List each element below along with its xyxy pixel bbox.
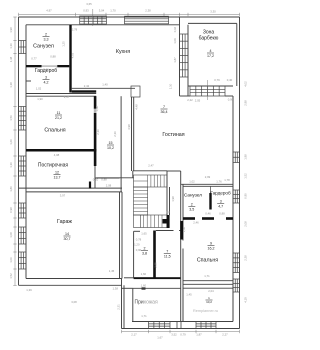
wall barbecue left inner	[187, 25, 189, 96]
svg-text:3,30: 3,30	[210, 10, 216, 14]
wall cluster left thick segment	[180, 221, 183, 240]
svg-text:2,46: 2,46	[43, 68, 49, 72]
svg-text:10,2: 10,2	[107, 146, 114, 150]
svg-text:2,47: 2,47	[64, 95, 70, 99]
svg-text:Постирочная: Постирочная	[38, 163, 69, 169]
svg-text:10,2: 10,2	[206, 300, 212, 304]
svg-text:Прихожая: Прихожая	[135, 300, 158, 306]
door post hall partition	[142, 287, 146, 289]
svg-text:2: 2	[45, 33, 47, 37]
svg-text:0,88: 0,88	[101, 178, 107, 182]
wall outer left	[18, 17, 20, 285]
wall barbecue inner top	[188, 22, 237, 24]
svg-text:4,7: 4,7	[218, 204, 223, 208]
wall room-a left	[133, 231, 135, 277]
wall lower-left vertical outer	[121, 279, 123, 329]
svg-text:3,3: 3,3	[44, 37, 49, 41]
svg-text:1,38: 1,38	[9, 82, 13, 88]
svg-text:1,02: 1,02	[189, 180, 195, 184]
svg-text:1,08: 1,08	[9, 232, 13, 238]
wall corridor left thick lower	[94, 113, 97, 166]
svg-text:1,38: 1,38	[9, 56, 13, 62]
stair right wall thick	[167, 215, 170, 228]
svg-text:0,88: 0,88	[50, 55, 56, 59]
svg-text:2,04: 2,04	[208, 289, 214, 293]
svg-text:2,27: 2,27	[222, 333, 228, 337]
svg-text:2,47: 2,47	[148, 164, 154, 168]
door posts bottom wall	[176, 322, 178, 329]
wall room-a/room-b thick divider	[153, 231, 156, 278]
svg-text:0,77: 0,77	[31, 57, 37, 61]
wall corridor bottom stub	[96, 177, 133, 179]
svg-text:2,31: 2,31	[117, 304, 121, 310]
stair left flight	[134, 187, 148, 215]
wall kitchen-living thick	[72, 90, 97, 92]
door leaf bedroom	[94, 109, 97, 113]
window right living	[233, 152, 240, 163]
svg-text:1,52: 1,52	[9, 273, 13, 279]
stair right wall	[166, 171, 168, 228]
wall kitchen-living thin	[72, 87, 135, 89]
svg-text:2,98: 2,98	[244, 100, 248, 106]
svg-text:4,2: 4,2	[44, 80, 49, 84]
wall room-b top	[156, 230, 174, 232]
svg-text:0,93: 0,93	[83, 9, 89, 13]
wall bottom-right room top/hall divider	[183, 287, 233, 289]
wall garage bottom inner	[26, 278, 122, 280]
svg-text:1,87: 1,87	[173, 57, 177, 63]
window left garage 3	[19, 252, 27, 269]
wall wardrobe top thick with door	[26, 65, 42, 67]
window left laundry	[19, 156, 27, 176]
svg-text:2,36: 2,36	[113, 131, 117, 137]
svg-text:1,98: 1,98	[9, 27, 13, 33]
svg-text:1,30: 1,30	[9, 162, 13, 168]
svg-text:9: 9	[210, 242, 212, 246]
svg-text:1,70: 1,70	[110, 9, 116, 13]
wall barbecue bottom	[188, 85, 233, 87]
wall corridor right of garage	[95, 177, 120, 179]
svg-text:1,25: 1,25	[62, 41, 66, 47]
wall outer top	[19, 16, 240, 18]
svg-text:3,08: 3,08	[71, 300, 77, 304]
door leaf wardrobe	[42, 65, 58, 66]
svg-text:1,67: 1,67	[157, 336, 163, 340]
svg-text:4,48: 4,48	[135, 104, 139, 110]
stair boundary top	[133, 170, 167, 172]
dim text bottom row	[122, 331, 240, 333]
wall bedroom2 bottom	[183, 280, 233, 282]
svg-text:Гараж: Гараж	[57, 219, 72, 225]
svg-text:0,88: 0,88	[219, 212, 225, 216]
svg-text:Санузел: Санузел	[184, 193, 202, 198]
svg-text:1,71: 1,71	[204, 274, 210, 278]
svg-text:7: 7	[166, 250, 168, 254]
svg-text:2: 2	[144, 247, 146, 251]
svg-text:1,45: 1,45	[186, 293, 192, 297]
svg-text:4: 4	[210, 49, 212, 53]
wall lower-left vertical inner	[123, 285, 125, 328]
svg-text:0,98: 0,98	[9, 207, 13, 213]
svg-text:1,98: 1,98	[244, 154, 248, 160]
svg-text:12: 12	[55, 171, 59, 175]
wall cluster left	[180, 171, 182, 322]
svg-text:3,8: 3,8	[142, 251, 147, 255]
door post garage	[89, 182, 91, 189]
svg-text:3,04: 3,04	[99, 9, 105, 13]
svg-text:4,08: 4,08	[54, 153, 60, 157]
svg-text:1,71: 1,71	[141, 314, 147, 318]
wall inner right	[232, 96, 234, 322]
wall inner left	[25, 25, 27, 279]
svg-text:2,36: 2,36	[96, 129, 100, 135]
svg-text:3: 3	[220, 200, 222, 204]
svg-text:11,5: 11,5	[164, 254, 171, 258]
svg-text:14: 14	[65, 232, 69, 236]
svg-text:0,79: 0,79	[214, 78, 220, 82]
wall wardrobe inner line	[26, 80, 31, 82]
svg-text:Гостиная: Гостиная	[162, 132, 184, 138]
wall cluster mid thick (bedroom2 top)	[183, 217, 195, 220]
hall upper partition line	[133, 287, 181, 289]
dim tick barbecue window	[206, 80, 208, 100]
wall laundry right thin lower	[94, 166, 96, 188]
svg-text:1,40: 1,40	[102, 83, 108, 87]
svg-text:1,96: 1,96	[182, 226, 186, 232]
svg-text:2,08: 2,08	[244, 221, 248, 227]
wall wardrobe bottom / bedroom top	[26, 93, 96, 95]
svg-text:3,65: 3,65	[86, 2, 92, 6]
svg-text:4,19: 4,19	[244, 297, 248, 303]
svg-text:1,60: 1,60	[9, 139, 13, 145]
svg-text:11: 11	[57, 111, 61, 115]
svg-text:4,03: 4,03	[71, 52, 75, 58]
svg-text:2,99: 2,99	[205, 175, 211, 179]
svg-text:1,98: 1,98	[171, 196, 175, 202]
wall rooms bottom (hall top) thick	[124, 277, 134, 279]
dim line top	[19, 14, 240, 16]
svg-text:2,08: 2,08	[106, 184, 112, 188]
wall below barbecue to living	[225, 95, 233, 97]
wall bathroom2/wardrobe2 divider thick	[209, 186, 211, 193]
svg-text:13,7: 13,7	[54, 175, 61, 179]
svg-text:1,39: 1,39	[26, 288, 32, 292]
svg-text:3: 3	[45, 76, 47, 80]
svg-text:17,2: 17,2	[207, 54, 214, 58]
svg-text:1,06: 1,06	[9, 257, 13, 263]
wall cluster top	[181, 183, 233, 185]
svg-text:3,98: 3,98	[127, 124, 131, 130]
svg-text:Гардероб: Гардероб	[210, 191, 231, 196]
svg-text:1,76: 1,76	[216, 180, 222, 184]
svg-text:Спальня: Спальня	[197, 258, 218, 264]
svg-text:1,60: 1,60	[141, 272, 147, 276]
svg-text:0,90: 0,90	[95, 105, 99, 111]
svg-text:4,97: 4,97	[46, 9, 52, 13]
stair newel post black	[163, 219, 168, 224]
svg-text:1,56: 1,56	[9, 115, 13, 121]
wall garage right	[119, 192, 121, 279]
svg-text:1,09: 1,09	[173, 38, 177, 44]
svg-text:36,4: 36,4	[161, 110, 168, 114]
svg-text:1,90: 1,90	[37, 97, 43, 101]
svg-text:2,46: 2,46	[193, 221, 199, 225]
window bottom room	[196, 322, 216, 329]
wall laundry bottom / garage top	[19, 187, 123, 189]
wall barbecue left (kitchen divider) outer	[179, 17, 181, 96]
svg-text:Спальня: Спальня	[44, 127, 65, 133]
svg-text:2,17: 2,17	[131, 333, 137, 337]
svg-text:0,90: 0,90	[136, 248, 142, 252]
wall garage bottom outer	[19, 284, 122, 286]
window right bedroom2	[233, 253, 240, 273]
svg-text:1,60: 1,60	[141, 284, 147, 288]
window left bedroom	[19, 107, 27, 131]
wall corridor right (living left)	[131, 97, 133, 171]
svg-text:1,20: 1,20	[134, 243, 140, 247]
svg-text:2,38: 2,38	[244, 255, 248, 261]
wall corridor left thick upper	[94, 96, 97, 109]
svg-text:3,97: 3,97	[60, 194, 66, 198]
svg-text:Санузел: Санузел	[33, 43, 54, 49]
wall bottom inner	[132, 321, 233, 323]
svg-text:0,79: 0,79	[180, 333, 186, 337]
window left garage 1	[19, 203, 27, 218]
wall shaft right of corridor	[120, 96, 122, 192]
pier at corridor top right	[131, 86, 140, 97]
svg-text:2,38: 2,38	[145, 9, 151, 13]
window right bottom-room	[233, 279, 240, 292]
wall bottom outer	[122, 328, 240, 330]
svg-text:1,65: 1,65	[141, 232, 147, 236]
window top kitchen-left	[80, 16, 107, 24]
svg-text:2,05: 2,05	[195, 99, 201, 103]
window bottom hall	[149, 322, 171, 329]
window left garage 2	[19, 227, 27, 244]
wall bedroom-laundry divider thick	[26, 149, 96, 152]
svg-text:1,52: 1,52	[244, 173, 248, 179]
svg-text:1,30: 1,30	[9, 43, 13, 49]
dim line left	[14, 17, 16, 285]
svg-text:15: 15	[109, 141, 113, 145]
wall outer right	[239, 17, 241, 329]
wall barbecue inner right	[236, 23, 238, 86]
svg-text:0,98: 0,98	[228, 98, 234, 102]
svg-text:1,0: 1,0	[166, 210, 170, 214]
wall bathroom right thick (kitchen left)	[69, 25, 71, 93]
svg-text:0,66: 0,66	[173, 26, 177, 32]
svg-text:21,2: 21,2	[55, 116, 62, 120]
svg-text:0,90: 0,90	[244, 193, 248, 199]
svg-text:1,87: 1,87	[196, 333, 202, 337]
window top kitchen-right	[125, 16, 169, 24]
svg-text:2,22: 2,22	[187, 98, 193, 102]
window right wardrobe2	[233, 190, 240, 203]
stair top run	[134, 175, 168, 187]
svg-text:1,02: 1,02	[36, 87, 42, 91]
svg-text:16,2: 16,2	[208, 246, 215, 250]
svg-text:30,7: 30,7	[64, 237, 71, 241]
svg-text:4,02: 4,02	[244, 81, 248, 87]
svg-text:3,5: 3,5	[189, 207, 194, 211]
wall inner top	[26, 24, 180, 26]
stair bottom run	[134, 215, 168, 228]
svg-text:барбекю: барбекю	[199, 36, 219, 42]
svg-text:1,80: 1,80	[9, 186, 13, 192]
hall inner corner lines	[122, 287, 133, 289]
svg-text:1,38: 1,38	[112, 287, 118, 291]
svg-text:2,55: 2,55	[154, 262, 158, 268]
svg-text:1,10: 1,10	[169, 83, 173, 89]
svg-text:2,78: 2,78	[72, 28, 78, 32]
svg-text:0,40: 0,40	[227, 78, 233, 82]
svg-text:Remplanner.ru: Remplanner.ru	[193, 309, 218, 313]
svg-text:3,52: 3,52	[171, 333, 177, 337]
window left bathroom	[19, 41, 27, 54]
svg-text:7: 7	[163, 105, 165, 109]
window barbecue bottom	[190, 86, 225, 96]
svg-text:2,42: 2,42	[84, 84, 90, 88]
svg-text:0,10: 0,10	[93, 178, 99, 182]
svg-text:0,78: 0,78	[136, 238, 142, 242]
svg-text:1,45: 1,45	[109, 269, 115, 273]
window barbecue left wall	[180, 34, 189, 77]
svg-text:0,46: 0,46	[205, 212, 211, 216]
svg-text:Кухня: Кухня	[116, 49, 130, 55]
svg-text:1,78: 1,78	[224, 178, 230, 182]
svg-text:2: 2	[191, 203, 193, 207]
